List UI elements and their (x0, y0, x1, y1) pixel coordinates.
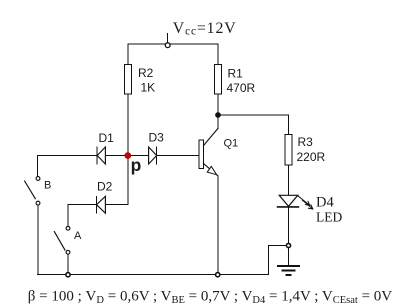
ground symbol bar 2 (282, 269, 294, 271)
node bottom rail A junction ring (66, 273, 70, 277)
wire R1 bottom to collector node (217, 94, 219, 115)
svg-text:470R: 470R (227, 81, 256, 95)
node collector junction dot (216, 113, 221, 118)
diode D4 LED light arrow 2 (302, 200, 312, 209)
wire Q1 emitter vertical to bottom rail (217, 176, 219, 275)
wire LED cathode to ground (288, 207, 290, 265)
switch B top contact (36, 177, 40, 181)
svg-text:D3: D3 (149, 131, 165, 145)
node Vcc terminal stub (167, 34, 169, 43)
transistor Q1 collector lead diagonal (204, 128, 218, 145)
transistor Q1 emitter lead diagonal (204, 164, 218, 176)
wire collector node to R3 top (218, 115, 289, 134)
diode D3 cathode bar (156, 147, 158, 164)
diode D4 LED light arrow 1 (298, 196, 310, 206)
svg-text:β = 100 ; VD = 0,6V ; VBE = 0,: β = 100 ; VD = 0,6V ; VBE = 0,7V ; VD4 =… (28, 289, 393, 307)
wire switch A to bottom rail (67, 254, 69, 274)
wire input A branch horizontal to D2 (68, 204, 97, 206)
resistor R1 body (215, 65, 222, 94)
wire R3 bottom to LED anode (288, 165, 290, 195)
wire input B branch horizontal to D1 (38, 155, 98, 157)
svg-text:1K: 1K (141, 81, 156, 95)
transistor Q1 base bar (199, 140, 203, 169)
transistor Q1 emitter arrowhead (207, 166, 216, 174)
diode D4 LED triangle (279, 195, 298, 206)
wire D2 anode to R2 branch corner (105, 204, 128, 206)
svg-text:LED: LED (316, 209, 342, 224)
node bottom rail emitter junction ring (216, 273, 220, 277)
diode D4 LED cathode bar (278, 206, 299, 208)
diode D1 cathode bar (96, 147, 98, 164)
wire input B vertical to switch (37, 156, 39, 177)
diode D3 triangle (149, 147, 157, 164)
switch A bottom contact (66, 250, 70, 254)
svg-text:R1: R1 (228, 67, 244, 81)
svg-text:220R: 220R (297, 150, 326, 164)
node Vcc terminal circle (165, 43, 170, 48)
wire ground node left and down to bottom rail (268, 246, 286, 275)
wire D3 cathode to Q1 base (157, 155, 199, 157)
wire D1 anode to node P (105, 155, 125, 157)
wire R2 top (127, 44, 129, 64)
svg-text:B: B (44, 180, 51, 192)
switch B blade (25, 181, 36, 199)
svg-text:D1: D1 (99, 131, 115, 145)
ground symbol bar 1 (278, 265, 299, 267)
diode D1 triangle (97, 147, 105, 164)
wire Q1 collector vertical to node (217, 117, 219, 128)
svg-text:D2: D2 (97, 180, 113, 194)
svg-text:D4: D4 (316, 195, 334, 211)
wire R1 top (217, 44, 219, 64)
ground symbol bar 3 (287, 274, 291, 276)
wire node P to D3 anode (131, 155, 149, 157)
node LED-ground junction ring (286, 243, 290, 247)
resistor R3 body (285, 135, 292, 166)
switch B bottom contact (36, 201, 40, 205)
resistor R2 body (125, 65, 132, 95)
svg-text:Vcc=12V: Vcc=12V (173, 20, 237, 38)
switch A top contact (66, 226, 70, 230)
diode D2 cathode bar (96, 196, 98, 213)
svg-text:A: A (74, 230, 82, 242)
switch A blade (54, 232, 65, 251)
wire input A vertical to switch (67, 205, 69, 226)
svg-text:R2: R2 (138, 66, 154, 80)
wire R2 bottom through node P down to D2 corner (127, 94, 129, 205)
svg-text:Q1: Q1 (224, 138, 239, 150)
node P red dot (125, 153, 131, 159)
svg-text:p: p (131, 155, 142, 175)
diode D2 triangle (97, 196, 106, 213)
wire top rail Vcc (128, 43, 218, 45)
svg-text:R3: R3 (298, 135, 314, 149)
wire switch B to bottom rail (37, 205, 39, 275)
wire bottom rail (38, 274, 269, 276)
